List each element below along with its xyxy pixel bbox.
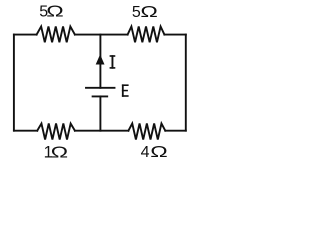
wire center branch upper (node to battery) — [99, 35, 101, 88]
wire right edge — [185, 35, 187, 131]
svg-text:4: 4 — [141, 144, 150, 161]
resistor R4 4ohm (bottom right) — [128, 124, 165, 140]
svg-text:Ω: Ω — [51, 144, 69, 161]
resistor R2 5ohm (top right) — [128, 27, 165, 43]
wire left edge — [13, 35, 15, 131]
svg-text:Ω: Ω — [140, 4, 158, 21]
wire bottom rail left segment — [14, 130, 37, 132]
current direction arrowhead I — [96, 54, 105, 64]
svg-text:Ω: Ω — [150, 144, 168, 161]
resistor R3 1ohm (bottom left) — [37, 124, 75, 140]
svg-text:Ω: Ω — [46, 4, 64, 21]
wire top rail left segment — [14, 34, 37, 36]
wire top rail middle segment — [75, 34, 128, 36]
resistor R1 5ohm (top left) — [37, 27, 75, 43]
battery E plate long (positive) — [86, 87, 115, 89]
wire bottom rail right segment — [165, 130, 186, 132]
label E — [122, 84, 129, 96]
wire top rail right segment — [164, 34, 185, 36]
battery E plate short (negative) — [93, 95, 108, 97]
label I — [110, 55, 116, 68]
wire center branch lower (battery to bottom rail) — [99, 96, 101, 130]
wire bottom rail middle segment — [75, 130, 128, 132]
